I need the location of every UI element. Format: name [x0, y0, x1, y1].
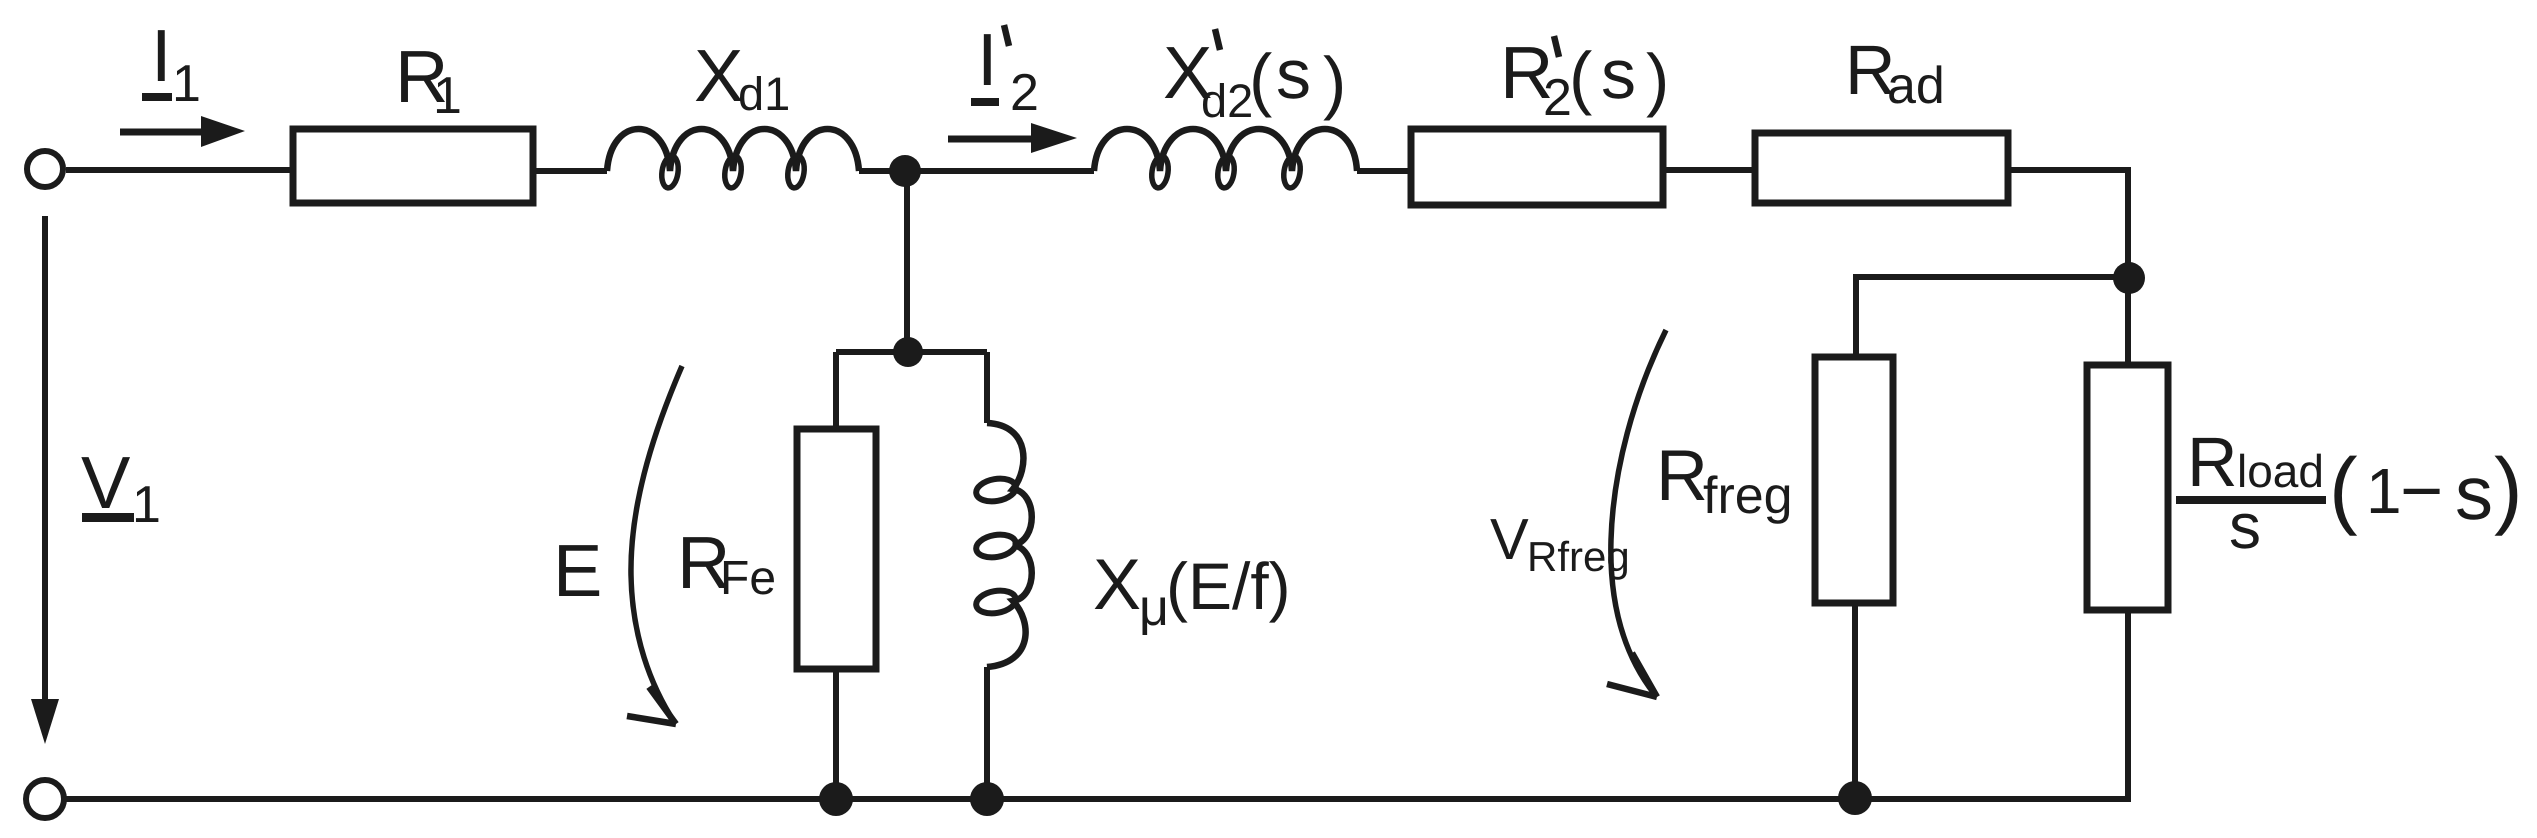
current arrow I2' [948, 123, 1077, 153]
node junction stator [889, 155, 921, 187]
svg-text:Fe: Fe [720, 552, 776, 605]
label Xd2'(s) [1163, 29, 1346, 127]
resistor R1 [293, 129, 533, 203]
svg-text:Rfreg: Rfreg [1527, 533, 1630, 580]
svg-text:s: s [1276, 35, 1311, 113]
svg-text:s: s [1601, 35, 1636, 113]
svg-text:V: V [1490, 507, 1529, 572]
svg-text:1: 1 [132, 476, 161, 534]
terminal top-left input [27, 151, 63, 187]
inductor Xmu [974, 423, 1031, 667]
arrow VRfreg (voltage arc) [1607, 330, 1666, 697]
svg-text:(: ( [1569, 38, 1592, 116]
wire top rail: R1 to Xd1 [533, 168, 607, 174]
label Xmu(E/f) [1093, 545, 1291, 637]
label Rfreg [1656, 436, 1793, 525]
svg-text:I: I [977, 18, 998, 101]
svg-text:X: X [1093, 545, 1141, 625]
svg-text:s: s [2455, 451, 2493, 536]
node junction RFe bottom [819, 782, 853, 816]
svg-text:X: X [694, 34, 743, 117]
label VRfreg [1490, 507, 1630, 580]
label E [553, 529, 602, 612]
wire node down to Rload [2125, 278, 2131, 365]
label I1 [142, 14, 201, 113]
svg-text:I: I [151, 14, 172, 97]
node junction Xmu bottom [970, 782, 1004, 816]
wire bottom rail [64, 796, 2131, 802]
svg-text:): ) [2494, 441, 2523, 537]
svg-text:R: R [1656, 436, 1708, 516]
wire Rfreg bottom lead [1852, 603, 1858, 799]
wire magnetizing branch top bar [836, 349, 987, 355]
node junction magnetizing top [893, 337, 923, 367]
wire Xmu top lead [984, 352, 990, 423]
wire top rail: terminal to R1 [66, 167, 293, 173]
svg-text:(: ( [2329, 441, 2358, 537]
wire left vertical with V1 arrow [31, 216, 59, 744]
label I2' [971, 18, 1039, 122]
label (1-s) factor [2329, 441, 2523, 537]
svg-text:): ) [1323, 43, 1346, 121]
wire Rload bottom lead [2125, 610, 2131, 802]
svg-text:(E/f): (E/f) [1166, 549, 1291, 623]
wire Xmu bottom lead [984, 667, 990, 799]
svg-text:2: 2 [1010, 64, 1039, 122]
wire top rail: R2 to Rad [1663, 167, 1755, 173]
inductor Xd1 [607, 129, 859, 189]
wire top rail: Xd1 through node to Xd2 [859, 168, 1094, 174]
label R2'(s) [1500, 31, 1669, 127]
wire top rail: Xd2 to R2 [1357, 168, 1411, 174]
resistor RFe [797, 429, 876, 669]
inductor Xd2'(s) [1094, 129, 1357, 189]
label Rad [1845, 31, 1945, 115]
resistor Rfreg [1815, 357, 1893, 603]
svg-text:2: 2 [1543, 69, 1572, 127]
svg-text:E: E [553, 529, 602, 612]
svg-text:V: V [81, 441, 131, 524]
wire mid-right horizontal from Rfreg drop to node [1856, 274, 2129, 357]
wire top rail: Rad to right corner, down to node [2008, 167, 2128, 278]
resistor R2'(s) [1411, 129, 1663, 205]
svg-text:ad: ad [1887, 57, 1945, 115]
wire RFe top lead [833, 352, 839, 429]
label V1 [81, 441, 161, 534]
wire magnetizing branch vertical from node [904, 171, 910, 352]
node junction Rfreg bottom [1838, 781, 1872, 815]
svg-text:freg: freg [1703, 467, 1793, 525]
resistor Rad [1755, 133, 2008, 203]
label Rload over s fraction [2176, 423, 2326, 562]
svg-text:(: ( [1249, 40, 1272, 118]
svg-text:): ) [1646, 40, 1669, 118]
label Xd1 [694, 34, 790, 120]
arrow E (voltage arc) [627, 366, 682, 724]
svg-text:1: 1 [433, 67, 462, 125]
label RFe [677, 521, 776, 605]
svg-text:d1: d1 [738, 67, 790, 120]
svg-text:μ: μ [1139, 579, 1169, 637]
current arrow I1 [120, 116, 245, 147]
label R1 [395, 35, 462, 125]
wire RFe bottom lead [833, 669, 839, 799]
svg-text:s: s [2229, 490, 2261, 562]
svg-text:d2: d2 [1201, 74, 1253, 127]
resistor Rload [2087, 365, 2168, 610]
terminal bottom-left input [26, 780, 64, 818]
svg-text:1: 1 [2366, 455, 2402, 527]
node junction right [2113, 262, 2145, 294]
svg-text:−: − [2400, 449, 2443, 532]
svg-text:1: 1 [172, 55, 201, 113]
